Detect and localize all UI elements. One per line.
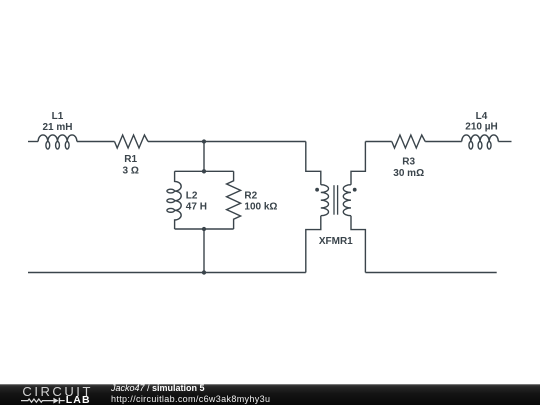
wire bottom right <box>365 272 496 274</box>
label L2 value 47 H <box>186 191 207 213</box>
wire <box>203 229 205 273</box>
svg-text:L2: L2 <box>186 191 198 202</box>
wire <box>28 141 38 143</box>
wire <box>203 142 205 172</box>
wire transformer secondary top lead <box>351 142 365 185</box>
wire <box>77 141 115 143</box>
wire <box>498 141 511 143</box>
logo diode symbol <box>53 398 64 404</box>
resistor R1 <box>115 135 149 148</box>
svg-text:100 kΩ: 100 kΩ <box>244 202 277 213</box>
svg-text:3 Ω: 3 Ω <box>123 166 139 177</box>
wire <box>175 170 234 172</box>
label L1 value 21 mH <box>42 111 72 133</box>
inductor L1 <box>38 135 77 149</box>
svg-text:L4: L4 <box>476 111 488 122</box>
wire transformer primary top lead <box>306 142 321 185</box>
transformer phase dot secondary <box>353 188 357 192</box>
wire transformer secondary bottom lead <box>351 216 365 273</box>
footer bar <box>0 384 540 405</box>
transformer XFMR1 primary winding <box>321 185 329 216</box>
wire <box>148 141 306 143</box>
svg-text:Jacko47 / simulation 5: Jacko47 / simulation 5 <box>110 383 205 393</box>
svg-text:210 µH: 210 µH <box>465 122 497 133</box>
wire <box>175 228 234 230</box>
svg-text:R1: R1 <box>124 154 137 165</box>
resistor R3 <box>392 135 425 148</box>
node junction top <box>202 139 206 143</box>
label R3 value 30 mohm <box>393 157 424 180</box>
transformer XFMR1 core <box>334 185 338 215</box>
svg-text:47 H: 47 H <box>186 201 207 212</box>
wire transformer primary bottom lead <box>306 216 321 273</box>
wire <box>365 141 391 143</box>
node junction box top <box>202 169 206 173</box>
svg-text:30 mΩ: 30 mΩ <box>393 168 424 179</box>
node junction bottom <box>202 270 206 274</box>
transformer phase dot primary <box>315 188 319 192</box>
label R2 value 100 kohm <box>244 191 277 213</box>
label R1 value 3 ohm <box>123 154 139 176</box>
wire <box>425 141 462 143</box>
inductor L4 <box>462 135 499 149</box>
resistor R2 <box>227 171 241 229</box>
wire bottom left <box>28 272 306 274</box>
svg-text:http://circuitlab.com/c6w3ak8m: http://circuitlab.com/c6w3ak8myhy3u <box>111 394 270 404</box>
logo resistor zigzag <box>21 399 53 402</box>
svg-text:R3: R3 <box>402 157 415 168</box>
svg-text:R2: R2 <box>244 191 257 202</box>
transformer XFMR1 secondary winding <box>343 185 351 216</box>
svg-text:21 mH: 21 mH <box>42 122 72 133</box>
label L4 value 210 uH <box>465 111 497 133</box>
svg-text:LAB: LAB <box>66 394 91 405</box>
svg-text:XFMR1: XFMR1 <box>319 236 353 247</box>
svg-text:L1: L1 <box>52 111 64 122</box>
inductor L2 <box>167 171 181 229</box>
node junction box bottom <box>202 227 206 231</box>
